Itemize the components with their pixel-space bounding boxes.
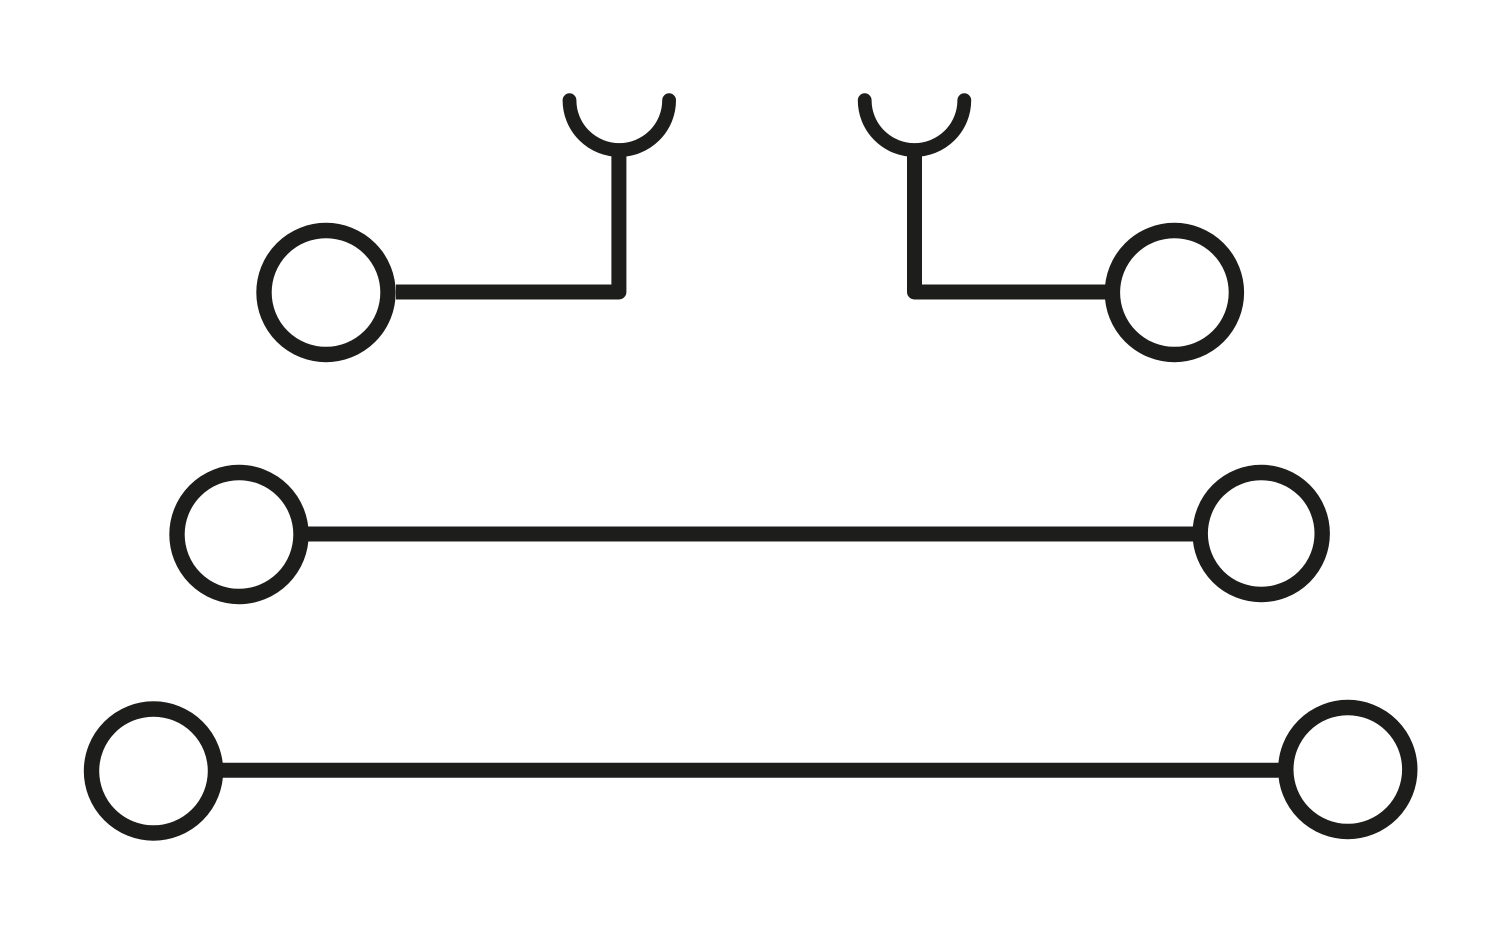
test socket fork L1 right [865,100,965,150]
terminal circle L3 right [1286,708,1410,832]
wire L3 bridge [223,763,1279,778]
terminal circle L2 left [177,473,301,597]
wire L1 left with elbow up [396,148,619,292]
wire L2 bridge [308,527,1194,542]
terminal circle L3 left [92,709,216,833]
terminal circle L2 right [1200,473,1322,595]
terminal circle L1 left [264,231,388,355]
terminal circle L1 right [1112,231,1236,355]
test socket fork L1 left [570,100,670,150]
wire L1 right with elbow up [915,148,1106,292]
